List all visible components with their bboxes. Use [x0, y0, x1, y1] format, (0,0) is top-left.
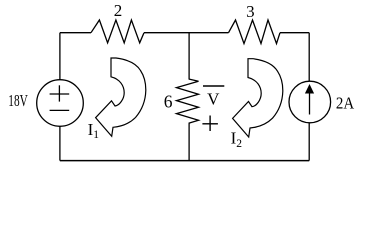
mesh current arrow I1 [96, 58, 146, 136]
svg-text:I1: I1 [88, 120, 100, 141]
wire bottom [60, 160, 309, 162]
wire top-middle segment [144, 32, 229, 34]
wire right lower [308, 123, 310, 161]
resistor 6-ohm [177, 79, 199, 123]
current source 2A [289, 81, 331, 123]
svg-text:3: 3 [246, 2, 255, 21]
svg-text:V: V [207, 90, 220, 109]
label minus of V [203, 85, 224, 87]
resistor 3-ohm [229, 20, 281, 44]
svg-text:I2: I2 [231, 128, 243, 149]
voltage source 18V [37, 80, 84, 127]
wire right upper [308, 33, 310, 82]
wire middle lower [188, 123, 190, 160]
wire left lower [59, 126, 61, 160]
svg-text:18V: 18V [8, 91, 28, 110]
wire top-left segment [60, 32, 91, 34]
svg-text:6: 6 [164, 92, 173, 112]
label plus of V [202, 116, 218, 132]
svg-text:2A: 2A [336, 94, 355, 113]
resistor 2-ohm [91, 20, 144, 43]
mesh current arrow I2 [233, 59, 283, 137]
wire top-right segment [280, 32, 309, 34]
wire middle upper [188, 33, 190, 79]
wire left upper [59, 33, 61, 80]
svg-text:2: 2 [114, 1, 123, 20]
